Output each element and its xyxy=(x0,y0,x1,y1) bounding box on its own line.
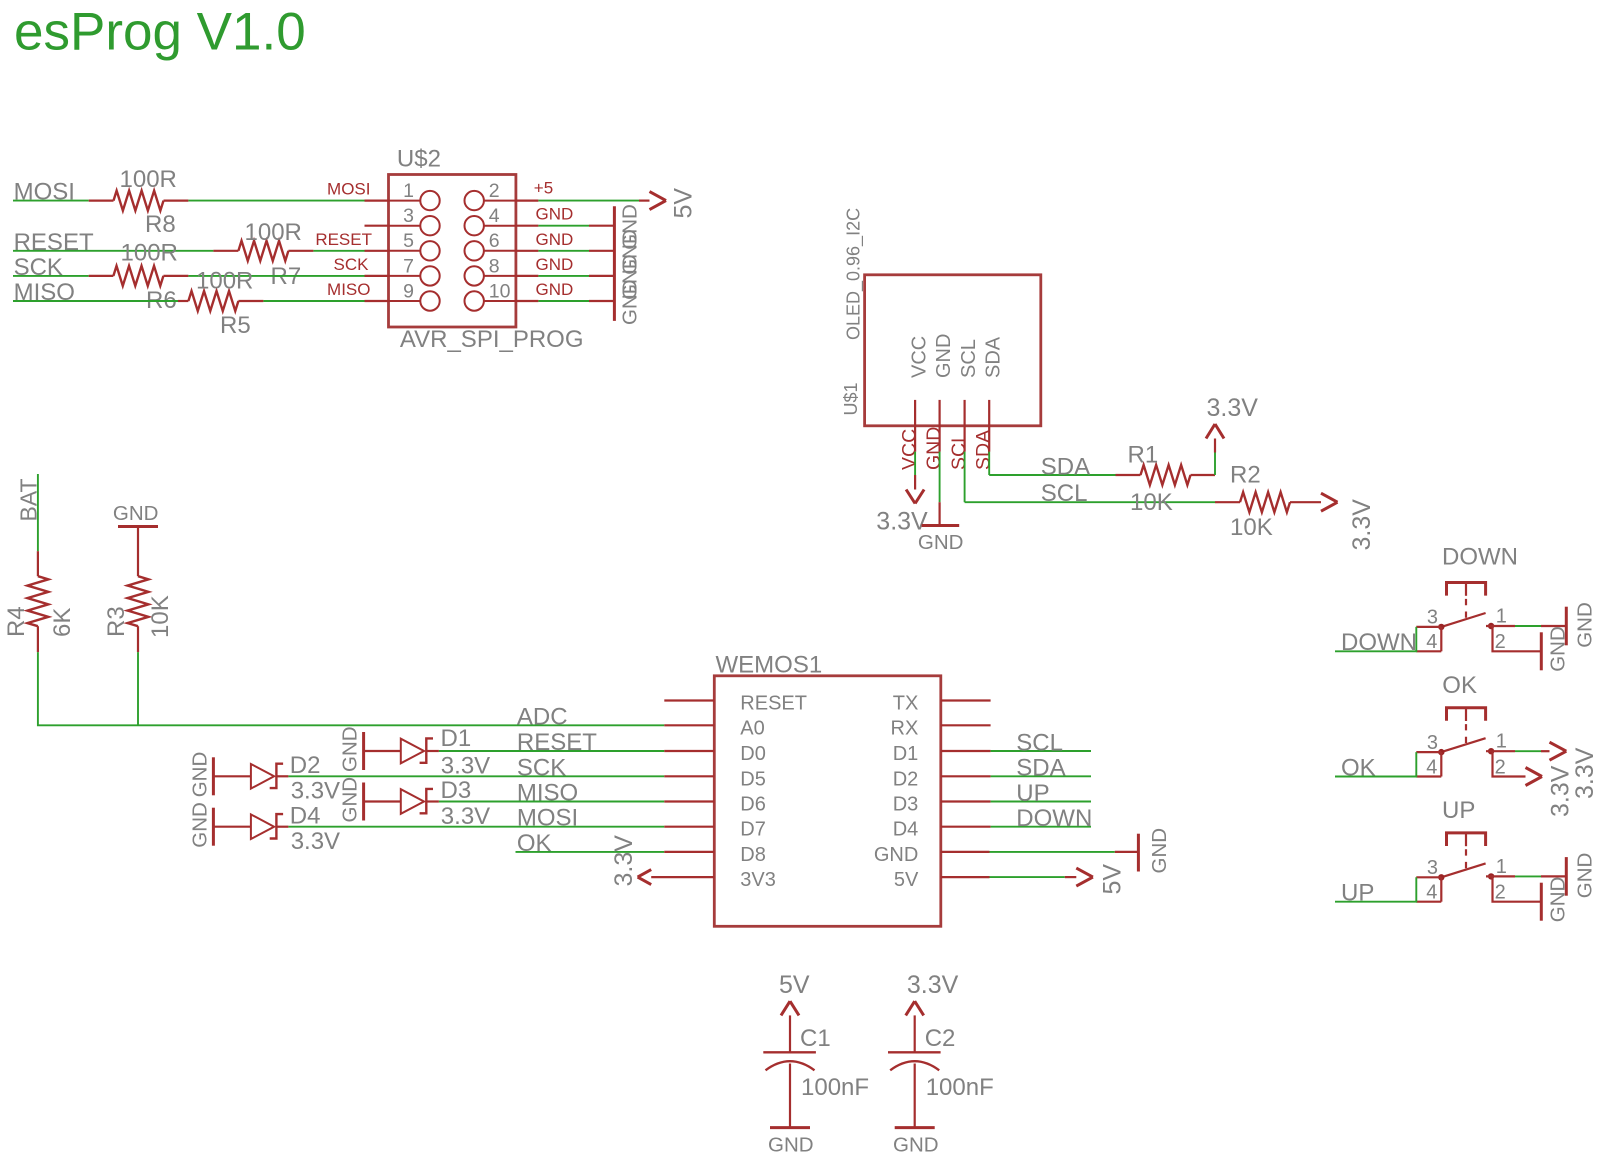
switch UP xyxy=(1416,797,1507,903)
svg-text:OK: OK xyxy=(1442,672,1477,699)
svg-text:5: 5 xyxy=(403,230,414,252)
svg-text:2: 2 xyxy=(1495,631,1506,653)
svg-text:3.3V: 3.3V xyxy=(907,971,959,999)
svg-text:SCL: SCL xyxy=(1016,729,1063,756)
wire xyxy=(989,452,1115,475)
svg-text:D2: D2 xyxy=(290,752,321,779)
pin 3V3 xyxy=(740,869,776,891)
svg-text:10: 10 xyxy=(489,280,511,302)
svg-text:RESET: RESET xyxy=(315,230,372,249)
ground GND xyxy=(918,502,964,554)
wire xyxy=(1493,751,1526,776)
svg-text:OK: OK xyxy=(517,830,552,857)
ground at UP pin1 xyxy=(1566,853,1596,899)
node RESET xyxy=(14,229,94,256)
wire xyxy=(1214,453,1216,476)
svg-text:C2: C2 xyxy=(925,1025,956,1052)
svg-text:4: 4 xyxy=(1426,631,1437,653)
svg-text:3.3V: 3.3V xyxy=(1571,747,1599,799)
svg-text:GND: GND xyxy=(339,726,362,772)
wire xyxy=(991,801,1091,803)
supply 3.3V arrow at OK pin2 xyxy=(1526,765,1575,817)
node DOWN xyxy=(1016,805,1092,832)
svg-text:GND: GND xyxy=(536,205,574,224)
svg-text:3.3V: 3.3V xyxy=(610,835,638,887)
diode D3 xyxy=(364,777,491,830)
pin D1 xyxy=(893,743,991,765)
svg-text:ADC: ADC xyxy=(517,703,568,730)
svg-text:GND: GND xyxy=(536,230,574,249)
node OK xyxy=(1341,754,1376,781)
supply 3.3V arrow at OK pin1 xyxy=(1550,742,1600,799)
pin D3 xyxy=(893,794,991,816)
svg-text:SDA: SDA xyxy=(1041,454,1090,481)
wire xyxy=(991,775,1091,777)
svg-text:VCC: VCC xyxy=(899,429,921,470)
wire xyxy=(990,876,1065,878)
pin GND xyxy=(874,844,990,866)
pin 1 xyxy=(327,180,440,211)
svg-text:100nF: 100nF xyxy=(801,1074,869,1101)
ground GND xyxy=(113,502,159,527)
ground GND at C1 xyxy=(768,1128,814,1157)
node SCK xyxy=(517,754,566,781)
node UP xyxy=(1341,880,1374,907)
pin 5V xyxy=(894,869,990,891)
svg-text:3: 3 xyxy=(1427,857,1438,879)
wire xyxy=(188,275,364,277)
pin 6 xyxy=(465,230,574,261)
svg-text:SCL: SCL xyxy=(948,432,970,470)
connector U$2 xyxy=(389,145,584,353)
svg-text:GND: GND xyxy=(768,1134,814,1157)
svg-text:1: 1 xyxy=(1496,731,1507,753)
resistor R7 xyxy=(213,219,313,290)
pin SCL xyxy=(948,339,980,470)
node MISO xyxy=(14,279,75,306)
svg-text:5V: 5V xyxy=(1099,864,1127,895)
svg-text:GND: GND xyxy=(1574,853,1597,899)
svg-text:9: 9 xyxy=(403,280,414,302)
svg-text:5V: 5V xyxy=(670,188,698,219)
pin SDA xyxy=(973,336,1005,470)
wire xyxy=(538,225,614,227)
svg-text:esProg V1.0: esProg V1.0 xyxy=(14,3,306,62)
resistor R5 xyxy=(178,268,263,339)
module WEMOS1 xyxy=(714,652,941,927)
svg-text:5V: 5V xyxy=(894,869,919,891)
svg-text:TX: TX xyxy=(893,693,919,715)
svg-text:GND: GND xyxy=(536,280,574,299)
svg-text:D5: D5 xyxy=(740,768,766,790)
svg-text:SDA: SDA xyxy=(973,430,995,470)
node SCL xyxy=(1016,729,1063,756)
svg-text:D8: D8 xyxy=(740,844,766,866)
resistor R6 xyxy=(89,240,189,315)
svg-text:100R: 100R xyxy=(120,166,177,193)
node ADC xyxy=(517,703,568,730)
wire xyxy=(939,452,941,503)
svg-text:GND: GND xyxy=(536,255,574,274)
wire xyxy=(914,1064,916,1128)
node SDA xyxy=(1041,454,1090,481)
svg-text:8: 8 xyxy=(489,255,500,277)
pin GND xyxy=(923,334,955,470)
diode D2 xyxy=(213,752,340,805)
svg-text:R4: R4 xyxy=(3,606,30,637)
pin D2 xyxy=(893,768,991,790)
wire xyxy=(13,275,89,277)
supply 3.3V up arrow xyxy=(1206,394,1258,453)
svg-text:VCC: VCC xyxy=(909,336,931,378)
wire xyxy=(990,851,1115,853)
diode D1 xyxy=(364,725,491,779)
supply 3.3V arrow right xyxy=(1321,493,1376,550)
wire xyxy=(439,801,664,803)
ground at UP pin2 xyxy=(1541,877,1569,923)
wire xyxy=(313,250,364,252)
wire xyxy=(991,750,1091,752)
wire xyxy=(288,775,664,777)
pin VCC xyxy=(899,336,931,470)
svg-text:SCK: SCK xyxy=(334,255,370,274)
svg-text:D1: D1 xyxy=(893,743,919,765)
svg-text:AVR_SPI_PROG: AVR_SPI_PROG xyxy=(400,326,584,353)
svg-text:SCK: SCK xyxy=(14,254,63,281)
svg-text:4: 4 xyxy=(489,205,500,227)
svg-text:1: 1 xyxy=(1496,856,1507,878)
supply 5V arrow xyxy=(639,188,698,219)
pin TX xyxy=(893,693,991,715)
pin 2 xyxy=(465,179,554,211)
svg-text:GND: GND xyxy=(1148,828,1171,874)
svg-text:SDA: SDA xyxy=(983,336,1005,378)
svg-text:4: 4 xyxy=(1426,882,1437,904)
resistor R1 xyxy=(1116,442,1216,516)
supply 5V arrow at C1 xyxy=(779,971,810,1052)
svg-text:MISO: MISO xyxy=(14,279,75,306)
pin A0 xyxy=(664,717,764,739)
resistor R2 xyxy=(1215,462,1321,542)
resistor R4 xyxy=(3,551,76,652)
pin D0 xyxy=(664,743,766,765)
pin RESET xyxy=(664,693,807,715)
svg-text:MISO: MISO xyxy=(327,280,370,299)
svg-text:RX: RX xyxy=(891,717,919,739)
ground GND xyxy=(1115,828,1171,874)
wire xyxy=(263,300,364,302)
svg-text:DOWN: DOWN xyxy=(1016,805,1092,832)
wire xyxy=(1335,877,1416,901)
svg-text:GND: GND xyxy=(113,502,159,525)
svg-text:GND: GND xyxy=(619,279,642,325)
svg-text:R5: R5 xyxy=(220,312,251,339)
svg-text:3V3: 3V3 xyxy=(740,869,776,891)
wire xyxy=(439,750,664,752)
ground at D2 xyxy=(188,752,213,798)
svg-text:GND: GND xyxy=(933,334,955,378)
diode D4 xyxy=(213,802,340,855)
svg-text:100R: 100R xyxy=(121,240,178,267)
svg-text:D3: D3 xyxy=(441,777,472,804)
ground at D3 xyxy=(339,777,364,823)
svg-text:100R: 100R xyxy=(196,268,253,295)
svg-text:+5: +5 xyxy=(534,179,553,198)
ground at DOWN pin2 xyxy=(1541,626,1569,672)
pin 5 xyxy=(315,230,439,261)
capacitor C1 xyxy=(763,1025,869,1101)
wire xyxy=(37,474,39,551)
svg-text:C1: C1 xyxy=(800,1025,831,1052)
svg-text:5V: 5V xyxy=(779,971,810,999)
svg-text:SCL: SCL xyxy=(958,339,980,378)
ground bus xyxy=(614,204,641,325)
svg-text:3.3V: 3.3V xyxy=(1348,499,1376,551)
svg-text:3.3V: 3.3V xyxy=(291,828,340,855)
display U$1 OLED_0.96_I2C xyxy=(841,208,1041,426)
svg-text:DOWN: DOWN xyxy=(1442,543,1518,570)
svg-text:4: 4 xyxy=(1426,756,1437,778)
svg-text:R2: R2 xyxy=(1230,462,1261,489)
svg-text:MOSI: MOSI xyxy=(517,805,578,832)
svg-text:2: 2 xyxy=(1495,756,1506,778)
wire xyxy=(288,826,664,828)
svg-text:D3: D3 xyxy=(893,794,919,816)
svg-text:GND: GND xyxy=(1574,602,1597,648)
svg-text:7: 7 xyxy=(403,255,414,277)
node UP xyxy=(1016,780,1049,807)
svg-text:SCK: SCK xyxy=(517,754,566,781)
pin 9 xyxy=(327,280,440,311)
supply 3.3V down arrow xyxy=(876,475,928,535)
svg-text:GND: GND xyxy=(188,752,211,798)
wire xyxy=(965,452,1215,503)
svg-text:100R: 100R xyxy=(245,219,302,246)
svg-text:6K: 6K xyxy=(49,608,76,637)
svg-text:R3: R3 xyxy=(103,606,130,637)
svg-text:D4: D4 xyxy=(893,819,919,841)
svg-text:SDA: SDA xyxy=(1016,755,1065,782)
wire xyxy=(38,652,664,725)
node MISO xyxy=(517,780,578,807)
svg-text:GND: GND xyxy=(1547,626,1570,672)
svg-text:GND: GND xyxy=(893,1134,939,1157)
node BAT xyxy=(16,478,42,521)
svg-text:MISO: MISO xyxy=(517,780,578,807)
node DOWN xyxy=(1341,629,1417,656)
wire xyxy=(991,826,1091,828)
svg-text:3.3V: 3.3V xyxy=(1547,765,1575,817)
node RESET xyxy=(517,729,597,756)
svg-text:UP: UP xyxy=(1442,797,1475,824)
svg-text:3: 3 xyxy=(1427,732,1438,754)
svg-text:10K: 10K xyxy=(147,595,174,638)
supply 3.3V arrow at C2 xyxy=(906,971,959,1052)
wire xyxy=(1493,876,1542,901)
svg-text:RESET: RESET xyxy=(517,729,597,756)
svg-text:D7: D7 xyxy=(740,819,766,841)
wire xyxy=(1486,875,1566,877)
svg-text:SCL: SCL xyxy=(1041,480,1088,507)
wire xyxy=(538,200,639,202)
wire xyxy=(137,652,139,725)
svg-text:D1: D1 xyxy=(441,725,472,752)
wire xyxy=(13,300,178,302)
wire xyxy=(13,200,89,202)
ground at DOWN pin1 xyxy=(1566,602,1596,648)
pin D6 xyxy=(664,794,766,816)
pin D4 xyxy=(893,819,991,841)
wire xyxy=(914,452,916,475)
capacitor C2 xyxy=(888,1025,994,1101)
wire xyxy=(538,300,614,302)
svg-text:D2: D2 xyxy=(893,768,919,790)
svg-text:R1: R1 xyxy=(1128,442,1159,469)
svg-text:2: 2 xyxy=(489,180,500,202)
svg-text:1: 1 xyxy=(403,180,414,202)
svg-text:GND: GND xyxy=(339,777,362,823)
svg-text:OLED_0.96_I2C: OLED_0.96_I2C xyxy=(844,208,865,340)
ground GND at C2 xyxy=(893,1128,939,1157)
svg-text:GND: GND xyxy=(1547,877,1570,923)
supply 5V arrow right xyxy=(1065,864,1127,895)
svg-text:10K: 10K xyxy=(1130,489,1173,516)
pin 4 xyxy=(465,205,574,236)
pin D5 xyxy=(664,768,766,790)
svg-text:3.3V: 3.3V xyxy=(1207,394,1259,422)
node OK xyxy=(517,830,552,857)
wire xyxy=(538,250,614,252)
wire xyxy=(13,250,213,252)
svg-text:GND: GND xyxy=(923,427,945,470)
supply 3.3V arrow left xyxy=(610,835,715,887)
wire xyxy=(1335,627,1416,651)
pin 10 xyxy=(465,280,574,311)
ground at D4 xyxy=(188,802,213,848)
svg-text:U$2: U$2 xyxy=(397,145,441,172)
svg-text:10K: 10K xyxy=(1230,514,1273,541)
pin 3 xyxy=(365,205,440,235)
svg-text:GND: GND xyxy=(188,802,211,848)
svg-text:RESET: RESET xyxy=(740,693,807,715)
svg-text:6: 6 xyxy=(489,230,500,252)
svg-text:3: 3 xyxy=(1427,607,1438,629)
pin 8 xyxy=(465,255,574,286)
svg-text:UP: UP xyxy=(1016,780,1049,807)
node SDA xyxy=(1016,755,1065,782)
svg-text:D0: D0 xyxy=(740,743,766,765)
pin D7 xyxy=(664,819,766,841)
node SCK xyxy=(14,254,63,281)
resistor R8 xyxy=(89,166,189,238)
svg-text:R8: R8 xyxy=(145,211,176,238)
switch OK xyxy=(1416,672,1507,778)
resistor R3 xyxy=(103,527,174,653)
svg-text:D4: D4 xyxy=(290,802,321,829)
svg-text:3.3V: 3.3V xyxy=(441,752,490,779)
wire xyxy=(1335,752,1416,776)
svg-text:GND: GND xyxy=(874,844,918,866)
node MOSI xyxy=(14,179,75,206)
wire xyxy=(516,851,665,853)
svg-text:3: 3 xyxy=(403,205,414,227)
svg-text:D6: D6 xyxy=(740,794,766,816)
wire xyxy=(188,200,364,202)
svg-text:100nF: 100nF xyxy=(926,1074,994,1101)
node SCL xyxy=(1041,480,1088,507)
wire xyxy=(538,275,614,277)
pin 7 xyxy=(334,255,440,286)
node MOSI xyxy=(517,805,578,832)
svg-text:3.3V: 3.3V xyxy=(291,778,340,805)
svg-text:MOSI: MOSI xyxy=(327,180,370,199)
svg-text:1: 1 xyxy=(1496,606,1507,628)
svg-text:2: 2 xyxy=(1495,882,1506,904)
pin RX xyxy=(891,717,991,739)
svg-text:A0: A0 xyxy=(740,717,764,739)
wire xyxy=(789,1064,791,1128)
svg-text:GND: GND xyxy=(918,531,964,554)
wire xyxy=(1486,750,1550,752)
svg-text:U$1: U$1 xyxy=(841,382,861,415)
switch DOWN xyxy=(1416,543,1518,653)
wire xyxy=(1493,626,1542,651)
ground at D1 xyxy=(339,726,364,772)
wire xyxy=(1486,625,1566,627)
pin D8 xyxy=(664,844,766,866)
